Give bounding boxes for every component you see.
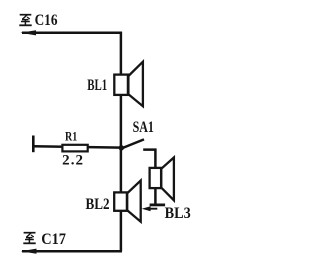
svg-text:SA1: SA1 (133, 119, 154, 137)
svg-text:BL2: BL2 (86, 196, 110, 213)
svg-text:BL1: BL1 (87, 76, 107, 94)
svg-text:R1: R1 (65, 129, 77, 144)
svg-text:C16: C16 (35, 12, 58, 29)
svg-text:BL3: BL3 (165, 205, 191, 222)
svg-text:2.2: 2.2 (62, 152, 84, 168)
svg-text:C17: C17 (41, 230, 66, 248)
